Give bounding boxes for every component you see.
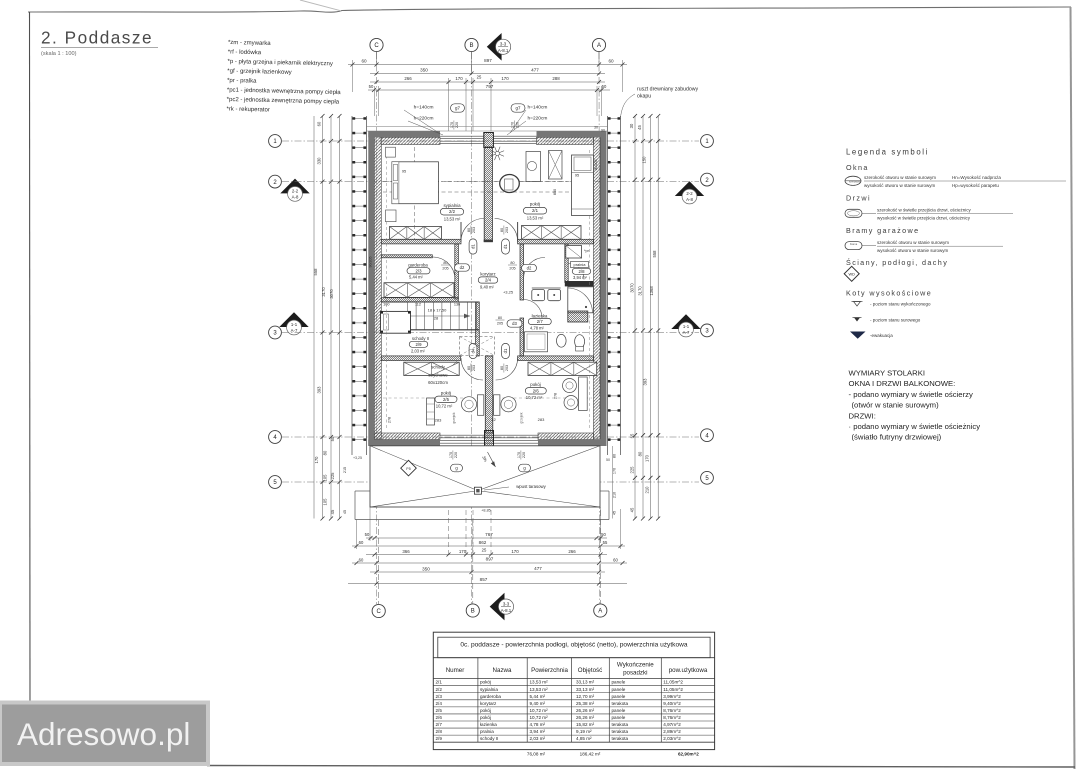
section marker 1-1/A-7 left (279, 312, 308, 327)
svg-text:220: 220 (455, 122, 459, 128)
svg-text:266: 266 (404, 76, 412, 81)
svg-text:wysokość w świetle przejścia d: wysokość w świetle przejścia drzwi, ości… (877, 215, 971, 220)
svg-text:4,78 m²: 4,78 m² (530, 326, 545, 331)
svg-text:szerokość w świetle przejścia: szerokość w świetle przejścia drzwi, ośc… (877, 208, 972, 213)
svg-text:45: 45 (330, 509, 335, 514)
bathroom door arc (524, 300, 542, 319)
svg-text:2. Poddasze: 2. Poddasze (41, 28, 153, 48)
wardrobe X bottom-right room (528, 362, 597, 375)
axis line 2 horizontal (282, 181, 699, 183)
central wall upper (484, 147, 492, 242)
grid bubble 5 right (701, 471, 714, 484)
wall above bottom rooms left (381, 356, 460, 361)
svg-text:Legenda symboli: Legenda symboli (846, 148, 929, 157)
svg-text:d4: d4 (470, 348, 475, 353)
svg-text:80: 80 (467, 366, 471, 370)
svg-text:h=220cm: h=220cm (528, 115, 548, 121)
svg-text:25: 25 (482, 548, 487, 553)
bottom dim chain row 2 (352, 545, 625, 547)
svg-text:2/7: 2/7 (436, 722, 443, 727)
svg-text:szerokość otworu w stanie suro: szerokość otworu w stanie surowym (877, 240, 949, 245)
svg-text:Wykończenie: Wykończenie (617, 662, 654, 669)
svg-text:d3: d3 (512, 321, 517, 326)
svg-text:A-8.1: A-8.1 (498, 48, 509, 53)
shower (568, 287, 594, 313)
watermark adresowo.pl (0, 703, 208, 765)
top exterior wall left segment (368, 131, 440, 137)
pralnia/bathroom wall (565, 281, 594, 286)
svg-text:220: 220 (454, 452, 458, 458)
svg-text:garderoba: garderoba (408, 263, 428, 268)
top dim chain row 1 (348, 64, 627, 66)
axis line B vertical (471, 52, 473, 604)
armchair ellipse room 2/1 (500, 175, 520, 193)
svg-text:2/5: 2/5 (443, 397, 450, 402)
svg-text:186,42 m²: 186,42 m² (580, 751, 601, 756)
svg-text:B: B (471, 609, 475, 615)
top wall window right 170/220 (494, 135, 537, 137)
svg-text:95: 95 (575, 173, 579, 178)
dim extension verticals top (352, 60, 354, 92)
chimney block bottom center (485, 431, 494, 447)
grid bubble 1 left (269, 135, 282, 148)
svg-text:d2: d2 (527, 265, 532, 270)
svg-text:26,26 m²: 26,26 m² (576, 708, 595, 713)
svg-text:C: C (374, 43, 379, 49)
svg-text:1368: 1368 (649, 286, 654, 296)
svg-text:terakota: terakota (612, 722, 629, 727)
svg-text:DRZWI:: DRZWI: (849, 411, 876, 420)
bottom dim chain row 5 (370, 571, 605, 573)
svg-text:(skala 1 : 100): (skala 1 : 100) (41, 51, 77, 57)
svg-text:schody: schody (431, 365, 445, 370)
svg-text:*zm - zmywarka: *zm - zmywarka (228, 40, 271, 47)
svg-text:2-2: 2-2 (292, 189, 299, 194)
svg-text:203: 203 (472, 227, 476, 233)
stairs schody II (381, 301, 479, 303)
svg-text:-ewakuacja: -ewakuacja (870, 333, 893, 338)
bottom wall window/doors (440, 434, 538, 436)
svg-text:pokój: pokój (530, 382, 541, 387)
svg-text:3,94 m²: 3,94 m² (530, 729, 546, 734)
svg-text:Objętość: Objętość (578, 667, 602, 674)
svg-text:220: 220 (522, 452, 526, 458)
svg-text:Nazwa: Nazwa (493, 667, 512, 674)
svg-text:pokój: pokój (480, 708, 491, 713)
svg-text:posadzki: posadzki (623, 670, 647, 677)
svg-text:terakota: terakota (612, 701, 629, 706)
svg-text:225: 225 (330, 472, 335, 480)
svg-text:2/1: 2/1 (436, 680, 443, 685)
terrace outline (370, 446, 600, 507)
svg-text:9,40 m²: 9,40 m² (530, 701, 546, 706)
bottom dim chain row 4 (352, 562, 627, 564)
svg-text:170: 170 (517, 452, 521, 458)
armchairs room 2/6 (563, 379, 577, 393)
svg-text:8,76m^2: 8,76m^2 (663, 715, 681, 720)
lower floor outline (354, 491, 356, 520)
terrace drain (474, 487, 481, 494)
svg-text:A: A (598, 609, 602, 615)
svg-text:170: 170 (511, 549, 519, 554)
svg-text:2/6: 2/6 (533, 388, 540, 393)
svg-text:wysokość otworu w stanie surow: wysokość otworu w stanie surowym (864, 183, 936, 188)
svg-text:OKNA I DRZWI BALKONOWE:: OKNA I DRZWI BALKONOWE: (849, 379, 956, 388)
top dim chain row 4 (368, 89, 610, 91)
svg-text:33,13 m²: 33,13 m² (576, 680, 595, 685)
svg-text:2/5: 2/5 (436, 708, 443, 713)
wardrobe X top-left room (390, 227, 442, 240)
svg-text:A-8.1: A-8.1 (501, 608, 512, 613)
svg-text:9,40 m²: 9,40 m² (480, 284, 495, 289)
svg-text:558: 558 (313, 268, 318, 276)
garderoba top wall (381, 255, 432, 258)
svg-text:sypialnia: sypialnia (443, 203, 461, 208)
svg-text:schody II: schody II (480, 736, 498, 741)
svg-text:170: 170 (314, 456, 319, 464)
paper right edge (1071, 7, 1075, 769)
svg-text:350: 350 (420, 68, 428, 73)
svg-text:60: 60 (361, 59, 367, 64)
section pennant top 3-3 (487, 33, 502, 61)
grid bubble 2 right (701, 173, 714, 186)
svg-text:18 x 17,50: 18 x 17,50 (428, 308, 447, 313)
dim extension verticals bottom (369, 507, 371, 541)
svg-text:g7: g7 (455, 106, 460, 111)
svg-text:9,19 m²: 9,19 m² (576, 729, 592, 734)
door label d1 left (469, 239, 477, 254)
svg-text:90/205: 90/205 (594, 160, 598, 171)
svg-text:60: 60 (608, 59, 614, 64)
svg-text:210: 210 (645, 486, 650, 494)
svg-text:897: 897 (484, 58, 492, 63)
svg-text:Hn=Wysokość nadproża: Hn=Wysokość nadproża (952, 175, 1001, 180)
svg-text:łazienka: łazienka (532, 313, 548, 318)
svg-text:9,40m^2: 9,40m^2 (663, 701, 681, 706)
grid bubble 2 left (269, 175, 282, 188)
svg-text:8,76m^2: 8,76m^2 (663, 708, 681, 713)
svg-text:Ściany, podłogi, dachy: Ściany, podłogi, dachy (846, 258, 948, 267)
svg-text:B: B (469, 43, 473, 49)
svg-text:170: 170 (455, 76, 463, 81)
svg-text:h=140cm: h=140cm (414, 104, 434, 110)
garderoba right wall (455, 244, 459, 299)
svg-text:Hp=wysokość parapetu: Hp=wysokość parapetu (952, 183, 999, 188)
svg-text:d1: d1 (503, 348, 508, 353)
svg-text:850: 850 (553, 189, 557, 195)
svg-text:278: 278 (388, 417, 392, 423)
left rafter ladder (351, 116, 353, 455)
svg-text:203: 203 (505, 227, 509, 233)
central wall lower (485, 356, 493, 433)
bottom dim chain row 6 (348, 583, 627, 585)
svg-text:283: 283 (435, 418, 442, 423)
svg-text:2/9: 2/9 (416, 342, 423, 347)
svg-text:2,03 m²: 2,03 m² (530, 736, 546, 741)
svg-text:288: 288 (552, 76, 560, 81)
svg-text:105: 105 (323, 498, 328, 506)
svg-text:205: 205 (509, 267, 515, 271)
svg-text:10,72 m²: 10,72 m² (530, 715, 549, 720)
svg-text:25: 25 (477, 74, 482, 79)
svg-text:łazienka: łazienka (480, 722, 497, 727)
axis line A vertical (598, 52, 601, 604)
svg-text:ruszt drewniany zabudowy: ruszt drewniany zabudowy (637, 87, 699, 93)
svg-text:80: 80 (510, 261, 514, 265)
right rafter ladder (607, 116, 609, 455)
svg-text:schody II: schody II (412, 336, 429, 341)
svg-text:panele: panele (612, 680, 626, 685)
svg-text:60: 60 (317, 121, 322, 126)
left exterior wall (368, 131, 374, 446)
svg-text:857: 857 (480, 577, 488, 582)
svg-text:pokój: pokój (441, 391, 452, 396)
svg-text:korytarz: korytarz (480, 271, 495, 276)
svg-text:266: 266 (568, 549, 576, 554)
svg-text:d1: d1 (470, 244, 475, 249)
bottom dim chain row 1 (366, 537, 607, 539)
svg-text:170: 170 (501, 76, 509, 81)
section marker 2-2/A-8 left (280, 179, 309, 194)
svg-text:90: 90 (601, 129, 605, 133)
svg-text:2/3: 2/3 (416, 268, 423, 273)
svg-text:80: 80 (323, 450, 328, 455)
svg-text:WD: WD (849, 273, 856, 277)
desk chair room 2/6 (501, 397, 516, 412)
roof slope dashed lines (383, 181, 593, 183)
door label d4 bottom-left (469, 343, 477, 358)
svg-text:+8,85: +8,85 (481, 508, 491, 512)
svg-text:3-3: 3-3 (503, 601, 510, 606)
grid bubble 1 right (701, 135, 714, 148)
svg-text:panele: panele (612, 687, 626, 692)
svg-text:3,94 m²: 3,94 m² (573, 275, 588, 280)
svg-text:4,97m^2: 4,97m^2 (663, 722, 681, 727)
pralnia door arc (568, 264, 584, 280)
svg-text:2/4: 2/4 (485, 278, 492, 283)
svg-text:- podano wymiary w świetle ośc: - podano wymiary w świetle ościerzy (849, 390, 973, 399)
svg-text:11,05m^2: 11,05m^2 (663, 687, 683, 692)
washing machine (566, 246, 582, 258)
svg-text:50: 50 (365, 532, 370, 537)
svg-text:26,26 m²: 26,26 m² (576, 715, 595, 720)
svg-text:5,44 m²: 5,44 m² (530, 694, 546, 699)
svg-text:330: 330 (317, 157, 322, 165)
paper top edge (28, 7, 1071, 12)
svg-text:2/8: 2/8 (579, 269, 586, 274)
svg-text:2/4: 2/4 (436, 701, 443, 706)
svg-text:2/1: 2/1 (532, 208, 539, 213)
window marker g7 right (511, 104, 525, 112)
top exterior wall right segment (537, 131, 607, 137)
svg-text:2/7: 2/7 (537, 319, 544, 324)
svg-text:5,44 m²: 5,44 m² (409, 275, 424, 280)
svg-text:225: 225 (630, 466, 635, 474)
svg-text:pokój: pokój (530, 201, 541, 206)
svg-text:grzejnik: grzejnik (452, 412, 456, 423)
schody strychowe dashed hatch (460, 337, 495, 356)
svg-text:170: 170 (613, 468, 617, 474)
grid bubble A bottom (594, 604, 607, 617)
svg-text:3070: 3070 (630, 283, 635, 293)
axis line 5 horizontal (282, 481, 699, 483)
terrace marker diamond (401, 460, 417, 476)
svg-text:sypialnia: sypialnia (480, 687, 498, 692)
top dim chain row 3 (370, 81, 605, 83)
level symbol raw (854, 318, 860, 322)
door label d1 bottom-right (502, 343, 510, 358)
svg-text:10,72 m²: 10,72 m² (436, 404, 453, 409)
svg-text:0c. poddasze - powierzchnia po: 0c. poddasze - powierzchnia podłogi, obj… (460, 642, 688, 649)
svg-text:55: 55 (603, 540, 608, 545)
svg-text:h=140cm: h=140cm (528, 104, 548, 110)
svg-text:95: 95 (402, 169, 406, 174)
svg-text:13,53 m²: 13,53 m² (530, 687, 549, 692)
svg-text:12: 12 (491, 417, 496, 422)
svg-text:80: 80 (613, 454, 617, 458)
desk chair room 2/5 (461, 397, 476, 412)
svg-text:150: 150 (642, 156, 647, 164)
wardrobe X top-right room (522, 226, 582, 240)
svg-text:477: 477 (534, 566, 542, 571)
svg-text:· podano wymiary w świetle ośc: · podano wymiary w świetle ościeżnicy (849, 422, 981, 431)
grid bubble C bottom (372, 604, 385, 617)
svg-text:11,05m^2: 11,05m^2 (663, 680, 683, 685)
svg-text:2,03 m²: 2,03 m² (411, 348, 426, 353)
svg-text:korytarz: korytarz (480, 701, 497, 706)
svg-text:393: 393 (643, 378, 648, 386)
svg-text:50: 50 (601, 532, 606, 537)
bathroom sinks (532, 290, 545, 301)
svg-text:3-3: 3-3 (500, 42, 507, 47)
svg-text:szerokość otworu w stanie suro: szerokość otworu w stanie surowym (864, 175, 936, 180)
svg-text:g7: g7 (516, 106, 521, 111)
svg-text:A: A (597, 43, 601, 49)
svg-text:terakota: terakota (612, 736, 629, 741)
bookcase room 2/1 (549, 151, 563, 180)
terrace slope arrow 3% (488, 452, 496, 467)
axis line 1 horizontal (282, 140, 699, 142)
svg-text:205: 205 (442, 267, 448, 271)
svg-text:350: 350 (422, 566, 430, 571)
svg-text:50: 50 (369, 84, 374, 89)
svg-text:garderoba: garderoba (480, 694, 501, 699)
svg-text:105: 105 (323, 474, 328, 482)
svg-text:2/8: 2/8 (436, 729, 443, 734)
svg-text:2/6: 2/6 (436, 715, 443, 720)
svg-text:Drzwi: Drzwi (846, 194, 871, 203)
svg-text:(otwór w stanie surowym): (otwór w stanie surowym) (852, 401, 940, 410)
svg-text:170: 170 (450, 122, 454, 128)
grid bubble 5 left (269, 476, 282, 489)
svg-text:Koty wysokościowe: Koty wysokościowe (846, 289, 932, 298)
wardrobe X garderoba (384, 283, 454, 298)
door arcs top rooms to corridor (461, 219, 484, 242)
svg-text:Powierzchnia: Powierzchnia (531, 667, 568, 674)
evacuation symbol (850, 332, 866, 339)
svg-text:80: 80 (443, 261, 447, 265)
svg-text:393: 393 (317, 386, 322, 394)
svg-text:terakota: terakota (612, 729, 629, 734)
svg-text:1-1: 1-1 (291, 322, 298, 327)
area table (433, 632, 714, 749)
svg-text:brama: brama (850, 242, 858, 246)
svg-text:4,78 m²: 4,78 m² (530, 722, 546, 727)
svg-text:767: 767 (485, 532, 493, 537)
svg-text:55: 55 (630, 433, 635, 438)
top dim chain row 2 (370, 73, 605, 75)
svg-text:477: 477 (531, 68, 539, 73)
shelf room 2/5 (427, 398, 435, 425)
svg-text:panele: panele (612, 715, 626, 720)
paper bottom edge (207, 766, 1075, 768)
svg-text:45: 45 (630, 507, 635, 512)
svg-text:80: 80 (500, 228, 504, 232)
svg-text:Adresowo.pl: Adresowo.pl (17, 716, 190, 752)
svg-text:283: 283 (538, 417, 545, 422)
corridor door arc right (524, 257, 545, 278)
terrace window marker g left (451, 464, 463, 472)
svg-text:szerokość: szerokość (849, 179, 861, 183)
right dim chains (634, 116, 636, 519)
svg-text:80: 80 (638, 451, 643, 456)
svg-text:- poziom stanu surowego: - poziom stanu surowego (870, 317, 921, 322)
garderoba bottom wall (381, 298, 458, 302)
svg-text:215: 215 (343, 467, 347, 473)
section marker 2-2/A-8 right (675, 181, 704, 196)
top wall window left 170/220 (440, 135, 484, 137)
window marker g7 left (451, 104, 465, 112)
axis line 3 horizontal (282, 332, 699, 334)
nightstand 2 (386, 210, 397, 222)
axis line C vertical (376, 52, 378, 604)
grid bubble C top (370, 38, 383, 51)
bottom exterior wall right segment (538, 433, 594, 440)
svg-text:2-2: 2-2 (686, 191, 693, 196)
svg-text:+3,25: +3,25 (503, 290, 514, 295)
svg-text:P5: P5 (406, 467, 410, 471)
svg-text:558: 558 (652, 250, 657, 258)
svg-text:15,82 m²: 15,82 m² (576, 722, 595, 727)
svg-text:WYMIARY STOLARKI: WYMIARY STOLARKI (849, 369, 925, 378)
svg-text:33,13 m²: 33,13 m² (576, 687, 595, 692)
svg-text:205: 205 (497, 322, 503, 326)
svg-text:Bramy garażowe: Bramy garażowe (846, 226, 920, 235)
svg-text:797: 797 (486, 84, 494, 89)
stairwell right edge (476, 302, 480, 356)
svg-text:45: 45 (343, 510, 347, 514)
svg-text:A-8: A-8 (292, 195, 299, 200)
svg-text:2/2: 2/2 (449, 209, 456, 214)
svg-text:30: 30 (629, 123, 634, 128)
door arcs bottom rooms (461, 358, 483, 380)
svg-text:80: 80 (467, 228, 471, 232)
svg-text:3170: 3170 (321, 287, 326, 297)
svg-text:grzejnik: grzejnik (520, 412, 524, 423)
section pennant bottom 3-3 (490, 593, 505, 621)
svg-text:62,90m^2: 62,90m^2 (678, 751, 699, 756)
svg-text:50: 50 (606, 458, 610, 462)
svg-text:170: 170 (645, 454, 650, 462)
terrace window marker g right (519, 464, 531, 472)
hoistway box left of stairs (381, 311, 411, 333)
svg-text:3170: 3170 (638, 286, 643, 296)
grid bubble 4 left (269, 431, 282, 444)
svg-text:136: 136 (454, 303, 460, 307)
svg-text:897: 897 (486, 557, 494, 562)
svg-text:pokój: pokój (480, 715, 491, 720)
svg-text:2/2: 2/2 (436, 687, 443, 692)
